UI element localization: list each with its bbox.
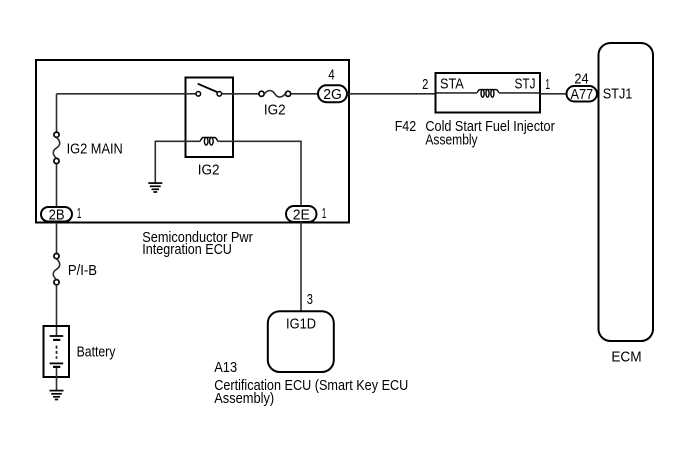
svg-text:2B: 2B (49, 206, 65, 223)
svg-text:A13: A13 (214, 359, 237, 376)
svg-text:IG2: IG2 (198, 162, 220, 179)
Semiconductor Pwr Integration ECU box (36, 60, 349, 223)
wire: switch to fuse IG2 (222, 93, 259, 95)
injector coil (476, 90, 499, 98)
battery (44, 326, 70, 377)
wire: battery to ground (56, 368, 58, 391)
wire: fuse IG2 MAIN to connector 2B and below (56, 164, 58, 254)
wire: 2G to F42 box (349, 93, 436, 95)
fuse IG2 MAIN (53, 132, 59, 164)
relay coil (200, 137, 219, 145)
svg-text:STJ1: STJ1 (603, 85, 633, 102)
ground (relay coil) (148, 183, 162, 192)
svg-text:3: 3 (307, 291, 313, 308)
svg-text:Assembly): Assembly) (214, 390, 274, 407)
svg-text:1: 1 (77, 205, 82, 222)
svg-text:IG2 MAIN: IG2 MAIN (67, 140, 123, 157)
wire inside F42 from coil (500, 92, 540, 94)
svg-text:2G: 2G (323, 86, 342, 103)
svg-text:STJ: STJ (515, 75, 536, 92)
connector 2G (318, 85, 347, 103)
F42 Cold Start Fuel Injector Assembly box (436, 73, 541, 113)
connector 2E (286, 206, 317, 223)
svg-text:Integration ECU: Integration ECU (142, 241, 232, 258)
connector A77 (567, 86, 598, 103)
svg-text:IG1D: IG1D (286, 315, 316, 332)
svg-text:A77: A77 (570, 86, 593, 103)
svg-text:1: 1 (322, 205, 327, 222)
wire: main horizontal run at y=93.8 from left vertical to relay (57, 93, 196, 95)
ground (battery) (50, 391, 64, 400)
wire: 2E down to IG1D (300, 222, 302, 312)
wire: coil right to 2E drop (218, 141, 301, 206)
label A13 Certification ECU (Smart Key ECU Assembly) (214, 359, 408, 407)
fuse IG2 (259, 91, 291, 97)
svg-text:4: 4 (328, 67, 335, 84)
svg-text:2E: 2E (293, 206, 310, 223)
relay switch contacts (196, 92, 222, 97)
wire: F42 to A77 (541, 93, 567, 95)
svg-text:STA: STA (440, 75, 464, 92)
wire inside F42 to coil (437, 92, 477, 94)
svg-text:F42: F42 (395, 118, 417, 135)
label F42 Cold Start Fuel Injector Assembly (395, 118, 555, 148)
connector 2B (41, 206, 72, 223)
label Semiconductor Pwr Integration ECU (142, 229, 253, 258)
svg-text:Battery: Battery (77, 343, 116, 360)
svg-text:IG2: IG2 (264, 101, 286, 118)
svg-text:P/I-B: P/I-B (68, 262, 97, 279)
svg-text:2: 2 (422, 76, 428, 93)
fuse P/I-B (53, 254, 59, 285)
wire: fuse P/I-B to battery (56, 285, 58, 336)
relay IG2 box (186, 78, 234, 158)
relay switch lever (198, 84, 217, 92)
svg-text:1: 1 (545, 76, 550, 93)
connector IG1D box (Certification ECU) (268, 311, 334, 372)
wire: coil level left to ground corner (155, 141, 199, 183)
svg-text:ECM: ECM (611, 349, 641, 366)
wire: left vertical drop x=56.5 from main wire to fuse IG2 MAIN (56, 94, 58, 132)
svg-text:Assembly: Assembly (425, 131, 478, 148)
wire: fuse IG2 to connector 2G (291, 93, 318, 95)
ECM box (599, 43, 654, 341)
